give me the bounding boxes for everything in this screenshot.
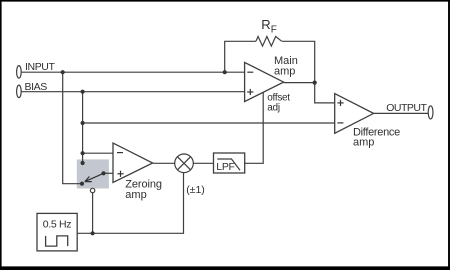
node switch pole [101, 171, 105, 175]
node feedback left junction [223, 70, 227, 74]
wire INPUT line to main amp inverting input [21, 71, 244, 73]
wire clock branch up to switch control circle [92, 193, 94, 234]
wire bias to difference amp inverting input [83, 122, 335, 124]
chopper switch shaded box [77, 159, 109, 188]
svg-text:OUTPUT: OUTPUT [386, 102, 427, 114]
wire bias to zeroing amp inverting input [83, 152, 113, 154]
resistor RF zigzag [256, 37, 282, 47]
svg-text:(±1): (±1) [186, 184, 205, 196]
svg-text:amp: amp [125, 189, 146, 201]
node bias junction [81, 90, 85, 94]
wire LPF output up to main amp offset adj pin [245, 93, 264, 164]
multiplier circle with X [175, 154, 194, 173]
0.5 Hz clock block [37, 213, 77, 251]
difference amp minus pin [337, 122, 343, 124]
op-amp main amp [245, 62, 284, 101]
node bias diff junction [81, 121, 85, 125]
wire main amp output to difference amp non-inverting input [315, 83, 335, 103]
svg-text:adj: adj [267, 103, 280, 114]
main amp plus pin [247, 89, 253, 95]
wire 0.5 Hz clock to multiplier control [77, 173, 183, 234]
svg-text:BIAS: BIAS [25, 81, 48, 93]
op-amp zeroing amp [113, 143, 153, 183]
chopper switch arm with arrowhead [85, 173, 104, 181]
difference amp plus pin [337, 100, 343, 106]
op-amp difference amp [335, 94, 374, 134]
wire INPUT branch down to switch [63, 72, 82, 184]
node input junction [61, 70, 65, 74]
wire difference amp output to OUTPUT terminal [374, 112, 429, 114]
node switch bottom terminal [80, 182, 84, 186]
svg-text:amp: amp [353, 137, 374, 149]
switch control open circle [90, 188, 94, 192]
zeroing amp plus pin [117, 171, 123, 177]
svg-text:amp: amp [274, 66, 295, 78]
svg-text:LPF: LPF [216, 161, 234, 173]
terminal INPUT [17, 66, 22, 79]
wire feedback top with left and right drops [225, 41, 256, 72]
wire multiplier to LPF [193, 162, 213, 164]
svg-text:INPUT: INPUT [25, 61, 55, 73]
terminal BIAS [17, 85, 22, 98]
node bias zero junction [81, 151, 85, 155]
zeroing amp minus pin [117, 152, 123, 154]
wire BIAS branch down to switch [82, 92, 84, 163]
wire main amp output [284, 82, 315, 84]
wire switch pole to zeroing amp non-inverting input [104, 172, 114, 174]
wire zeroing amp output to multiplier [153, 162, 175, 164]
main amp minus pin [247, 71, 253, 73]
svg-text:0.5 Hz: 0.5 Hz [43, 219, 72, 231]
node switch top terminal [81, 161, 85, 165]
node clock junction [91, 231, 95, 235]
terminal OUTPUT [428, 106, 433, 119]
LPF block [214, 153, 245, 173]
wire BIAS line to main amp non-inverting input [21, 91, 244, 93]
node main amp output junction [313, 81, 317, 85]
